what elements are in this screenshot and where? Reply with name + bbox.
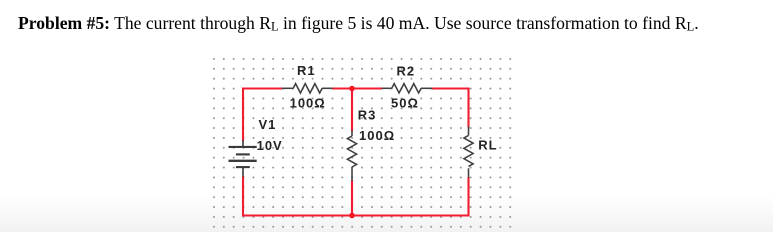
resistor R2 [382, 84, 433, 93]
wire middle lower [351, 180, 353, 216]
battery V1 [229, 140, 257, 177]
wire right upper [467, 88, 469, 128]
svg-text:R1: R1 [297, 63, 316, 78]
svg-text:100Ω: 100Ω [359, 128, 395, 143]
svg-text:R2: R2 [397, 64, 416, 79]
wire top-middle segment [332, 87, 382, 89]
svg-text:10V: 10V [257, 138, 283, 153]
node junction bottom [349, 213, 355, 219]
value 10V (V1) [257, 138, 283, 153]
label R3 [358, 107, 377, 122]
value 50Ω (R2) [391, 96, 419, 111]
value 100Ω (R3) [359, 128, 395, 143]
wire left upper [242, 88, 244, 142]
grid dots [209, 54, 513, 232]
resistor R3 [347, 131, 356, 182]
node junction top [349, 86, 355, 92]
wire top-left segment [243, 87, 282, 89]
svg-text:V1: V1 [259, 117, 277, 132]
label V1 [259, 117, 277, 132]
resistor R1 [282, 84, 333, 93]
wire middle upper [351, 89, 353, 132]
svg-text:100Ω: 100Ω [290, 95, 326, 110]
label R2 [397, 64, 416, 79]
resistor RL [464, 127, 473, 178]
wire right lower [467, 177, 469, 217]
wire left lower [242, 176, 244, 217]
wire top-right segment [432, 87, 469, 89]
svg-text:RL: RL [478, 137, 497, 152]
wire bottom [243, 214, 469, 216]
label RL [478, 137, 497, 152]
svg-text:50Ω: 50Ω [391, 96, 419, 111]
value 100Ω (R1) [290, 95, 326, 110]
title text [18, 13, 758, 34]
svg-text:R3: R3 [358, 107, 377, 122]
label R1 [297, 63, 316, 78]
